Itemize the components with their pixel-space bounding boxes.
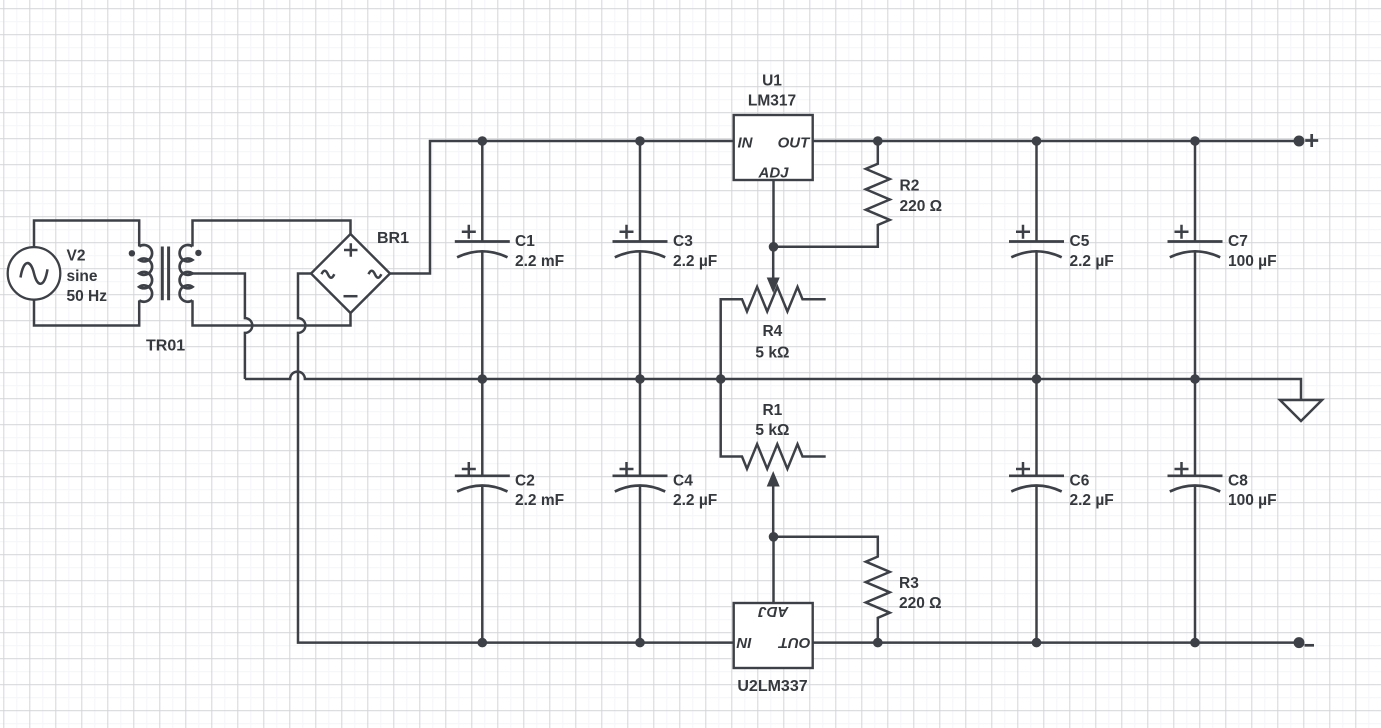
svg-text:C5: C5	[1070, 233, 1090, 250]
wire U1 ADJ pin	[772, 180, 775, 247]
transformer TR01	[129, 245, 202, 354]
svg-text:C7: C7	[1228, 233, 1248, 250]
svg-text:2.2 µF: 2.2 µF	[1070, 492, 1114, 509]
svg-text:U2LM337: U2LM337	[737, 678, 807, 695]
svg-text:2.2 mF: 2.2 mF	[515, 253, 564, 270]
svg-text:LM317: LM317	[748, 93, 796, 110]
capacitor C3	[613, 141, 718, 379]
svg-text:C2: C2	[515, 473, 535, 490]
svg-text:C3: C3	[673, 233, 693, 250]
svg-text:5 kΩ: 5 kΩ	[755, 422, 789, 439]
op-amp U1 LM317 regulator	[734, 73, 813, 182]
node ADJ/R2 junction	[769, 242, 779, 252]
svg-text:C6: C6	[1070, 473, 1090, 490]
capacitor C4	[613, 379, 718, 643]
wire secondary bottom to bridge minus	[193, 300, 351, 325]
capacitor C6	[1009, 379, 1114, 643]
svg-text:TR01: TR01	[146, 338, 185, 355]
svg-text:U1: U1	[762, 73, 782, 90]
wire bottom rail V-	[298, 274, 1299, 643]
svg-text:R2: R2	[900, 178, 920, 195]
svg-text:220 Ω: 220 Ω	[899, 595, 942, 612]
wire mid rail 0V	[245, 372, 1301, 400]
capacitor C8	[1168, 379, 1277, 643]
svg-text:100 µF: 100 µF	[1228, 492, 1277, 509]
svg-text:100 µF: 100 µF	[1228, 253, 1277, 270]
svg-text:5 kΩ: 5 kΩ	[755, 345, 789, 362]
wire U2 ADJ pin	[772, 537, 775, 603]
svg-text:IN: IN	[736, 634, 752, 651]
resistor R2 220 ohm	[774, 141, 943, 247]
node junction dots top rail	[478, 136, 1200, 146]
svg-text:2.2 µF: 2.2 µF	[1070, 253, 1114, 270]
svg-text:220 Ω: 220 Ω	[900, 198, 943, 215]
node junction dots mid rail	[478, 374, 1200, 384]
potentiometer R4 5k wiper arrow	[767, 247, 780, 293]
potentiometer R1 wiper arrow	[767, 471, 780, 537]
svg-text:ADJ: ADJ	[758, 603, 790, 620]
svg-text:V2: V2	[67, 248, 86, 265]
node V- output terminal	[1294, 637, 1315, 648]
svg-text:R3: R3	[899, 575, 919, 592]
bridge rectifier BR1	[311, 230, 409, 313]
capacitor C2	[455, 379, 564, 643]
wire top rail V+	[390, 141, 1299, 274]
voltage source V2	[8, 221, 140, 326]
ground	[1280, 400, 1322, 421]
potentiometer R1 5k	[721, 379, 826, 469]
capacitor C5	[1009, 141, 1114, 379]
svg-text:R1: R1	[762, 402, 782, 419]
svg-text:R4: R4	[762, 323, 782, 340]
node junction dots bottom rail	[478, 638, 1200, 648]
svg-text:2.2 µF: 2.2 µF	[673, 253, 717, 270]
svg-text:2.2 mF: 2.2 mF	[515, 492, 564, 509]
svg-text:C4: C4	[673, 473, 693, 490]
wire secondary top to bridge	[193, 221, 351, 247]
svg-text:BR1: BR1	[377, 230, 409, 247]
svg-text:ADJ: ADJ	[757, 165, 789, 182]
svg-text:OUT: OUT	[777, 634, 811, 651]
svg-text:2.2 µF: 2.2 µF	[673, 492, 717, 509]
capacitor C7	[1168, 141, 1277, 379]
capacitor C1	[455, 141, 564, 379]
svg-text:OUT: OUT	[778, 135, 812, 152]
resistor R3 220 ohm	[774, 537, 942, 643]
op-amp U2 LM337 regulator	[734, 603, 813, 695]
svg-text:IN: IN	[738, 135, 754, 152]
wire center tap to 0V	[193, 274, 253, 380]
svg-text:C8: C8	[1228, 473, 1248, 490]
svg-text:C1: C1	[515, 233, 535, 250]
potentiometer R4 5k	[721, 287, 826, 379]
svg-text:50 Hz: 50 Hz	[67, 288, 108, 305]
node ADJ/R3 junction	[769, 532, 779, 542]
node V+ output terminal	[1294, 134, 1319, 147]
svg-text:sine: sine	[67, 268, 98, 285]
